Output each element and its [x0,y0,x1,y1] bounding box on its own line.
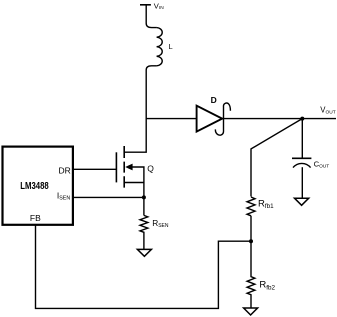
inductor L [157,28,163,66]
resistor Rfb1 [247,197,255,216]
svg-text:DR: DR [59,165,71,175]
svg-text:VIN: VIN [154,1,164,11]
svg-text:Rfb2: Rfb2 [259,280,275,292]
wire VOUT to COUT [301,119,303,159]
wire body to source tie [132,167,144,197]
svg-text:LM3488: LM3488 [20,181,49,192]
power terminal VIN bar [140,4,151,6]
wire source lead [124,182,144,184]
ground (RSEN) [137,249,151,256]
svg-text:RSEN: RSEN [152,218,169,229]
svg-text:D: D [211,95,217,105]
svg-text:VOUT: VOUT [320,106,335,116]
wire ISEN to node [73,196,144,198]
VOUT rail [222,118,336,120]
node VOUT junction dot [300,117,304,121]
svg-text:COUT: COUT [314,160,330,170]
wire VOUT diagonal to Rfb1 [251,119,302,197]
wire VIN down to inductor [146,5,156,28]
node FB junction dot [249,239,253,243]
schottky cathode bar [215,103,230,135]
svg-text:Q: Q [147,163,154,173]
wire COUT to ground [301,167,303,198]
wire FB trace [36,225,252,309]
capacitor COUT curved plate [293,163,311,167]
transistor Q body arrow [125,164,132,171]
node ISEN junction dot [142,195,146,199]
resistor Rfb2 [247,241,255,308]
wire Rfb1 to node [250,216,252,241]
ground (Rfb2) [244,308,258,315]
svg-text:L: L [169,42,173,51]
wire inductor bottom to drain junction [124,66,156,152]
wire node to RSEN [143,197,145,215]
transistor Q gate bar [115,152,117,182]
diode D [197,106,223,132]
wire DR to gate [73,168,117,170]
capacitor COUT flat plate [292,157,311,159]
svg-text:Rfb1: Rfb1 [258,198,274,210]
wire diode anode [146,118,196,120]
transistor Q channel segments [123,146,125,188]
ground (COUT) [295,198,309,205]
resistor RSEN [140,215,148,249]
svg-text:FB: FB [30,213,41,223]
LM3488 box U1 [3,147,73,225]
